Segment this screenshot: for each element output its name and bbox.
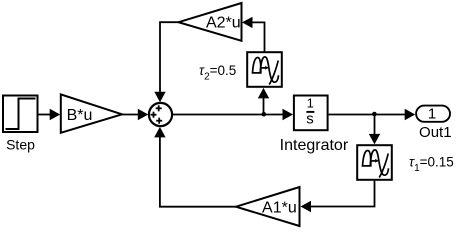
svg-text:Out1: Out1 <box>419 124 452 141</box>
svg-text:B*u: B*u <box>67 107 93 124</box>
svg-text:1: 1 <box>307 96 314 111</box>
svg-text:s: s <box>306 111 314 128</box>
svg-text:A1*u: A1*u <box>262 200 297 217</box>
svg-text:Integrator: Integrator <box>280 137 349 154</box>
svg-text:1: 1 <box>428 105 436 122</box>
svg-text:Step: Step <box>6 137 35 153</box>
svg-text:A2*u: A2*u <box>206 15 241 32</box>
